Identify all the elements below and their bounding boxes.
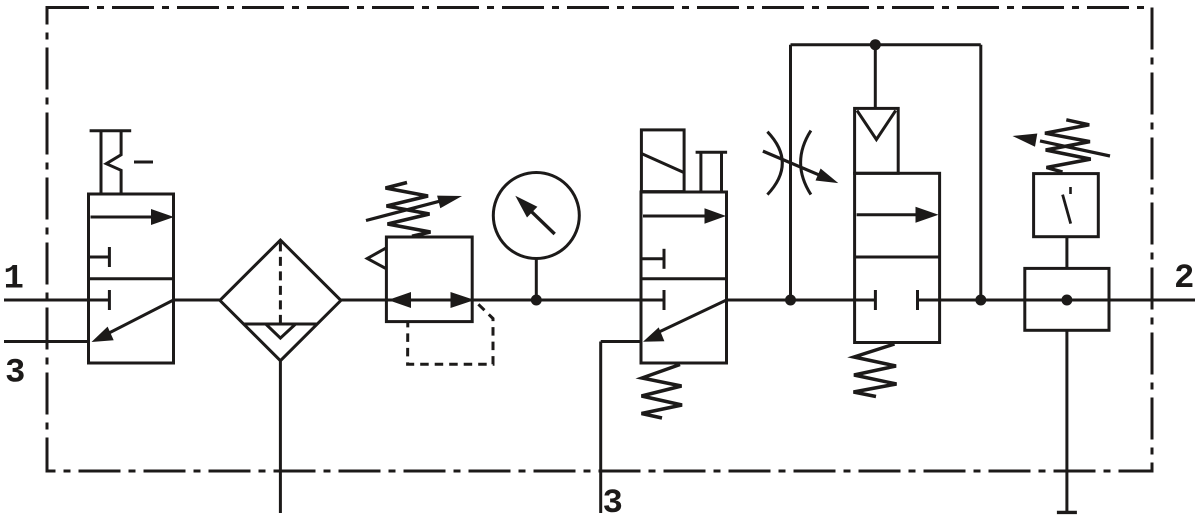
V2 solenoid coil [641,130,684,192]
wire regulator to valve V2 [472,299,641,302]
valve V3 body (2/2 soft-start valve) [855,173,940,342]
port label 3 left [5,355,25,393]
V3 pilot head with check seat [855,108,899,173]
V2 exhaust path arrow to port 3 [643,300,727,342]
V2 blocked port (top position) [641,249,664,269]
pressure gauge G1 [493,173,579,259]
pressure regulator R1 body [386,237,472,322]
wire filter to regulator R1 [341,299,387,302]
V3 flow path arrow (open position) [857,207,939,223]
svg-text:3: 3 [5,355,25,393]
wire PS1 link [1065,237,1068,269]
R1 adjustment arrow [366,196,462,221]
throttle (flow control) on pilot branch [767,131,811,195]
PS1 electrical switch body [1034,174,1099,237]
R1 pilot feedback dashed line [408,302,493,365]
R1 flow line with double arrow [386,292,474,308]
port label 1 [4,261,24,299]
wire pilot branch top run [791,43,981,46]
wire port 3 exhaust left [4,340,89,343]
valve V1 body (3/2 hand valve) [89,194,174,363]
V3 return spring [854,344,897,397]
valve V2 body (3/2 solenoid valve) [641,192,727,363]
wire pilot drop to V3 [874,45,877,109]
wire filter condensate drain [279,361,282,513]
pressure switch PS1 pilot body [1025,268,1109,330]
V3 blocked port left [855,290,876,310]
wire port 1 inlet [4,299,89,302]
PS1 setting spring [1045,120,1091,172]
filter F1 with water separator [220,240,341,361]
V2 blocked port 1 (bottom position) [641,290,664,310]
V1 manual actuator with detent [90,131,153,194]
V2 flow path arrow (open position) [643,208,726,224]
svg-text:3: 3 [603,485,623,523]
PS1 electrical terminal bar [1057,511,1077,514]
wire pilot branch left riser [789,45,792,300]
wire V2 exhaust to port 3 [601,342,641,514]
node junction dot right of V3 [975,295,986,306]
node junction dot at gauge [531,295,542,306]
V1 flow path arrow (open position) [91,209,175,225]
port label 2 [1174,260,1194,298]
wire V3 to pressure switch [940,299,1195,302]
wire V2 to valve V3 [727,299,855,302]
node junction dot left of V3 [785,295,796,306]
wire PS1 electrical output [1065,330,1068,513]
V1 blocked port (top position) [89,247,110,267]
throttle adjustment arrow [763,151,838,183]
V1 blocked port 1 (bottom position) [89,290,110,310]
V3 blocked port right [918,290,940,310]
PS1 adjustment arrow [1013,134,1111,157]
V2 return spring [642,365,683,419]
svg-text:2: 2 [1174,260,1194,298]
node junction dot in PS1 [1061,295,1072,306]
V1 exhaust path arrow to port 3 [92,300,174,342]
R1 adjustment spring [386,183,431,237]
G1 needle [515,196,554,234]
wire V1 to filter [174,299,220,302]
gauge stem wire [535,259,538,301]
port label 3 bottom [603,485,623,523]
svg-text:1: 1 [4,261,24,299]
node junction dot top [870,39,881,50]
R1 relief vent [367,248,386,269]
wire pilot branch right riser [979,45,982,300]
V2 manual override [696,152,728,191]
